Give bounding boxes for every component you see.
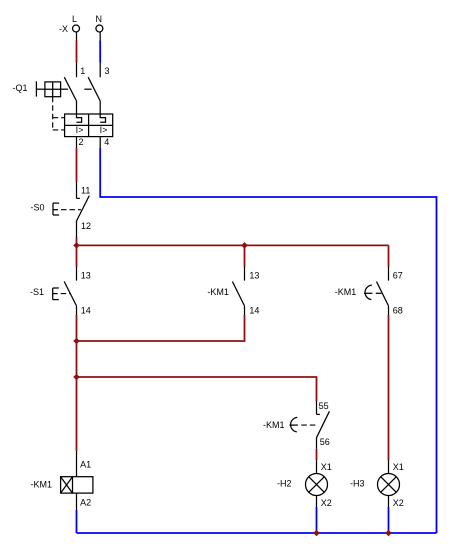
wire L to Q1 (red) [76,41,78,63]
svg-text:N: N [96,14,103,24]
svg-text:A2: A2 [80,497,91,507]
svg-text:68: 68 [393,306,403,316]
breaker Q1 pole1 lower pin [76,101,78,114]
junction dot node3 [73,374,80,381]
contact KM1 13-14 upper pin [244,267,246,281]
lamp H2 X1 pin [316,460,318,473]
svg-text:I>: I> [76,125,84,135]
wire H2 to bus (blue) [316,507,318,533]
breaker Q1 pole2 lower pin [99,101,101,114]
svg-text:55: 55 [319,401,329,411]
contact KM1 67-68 upper pin [388,267,390,281]
contact KM1 67-68 NO contact [377,282,389,306]
contact KM1 67-68 lower pin [388,306,390,315]
svg-text:L: L [72,14,77,24]
svg-text:X2: X2 [393,498,404,508]
wire KM1 68 to H3 (red) [388,315,390,460]
lamp H3 X2 pin [388,496,390,508]
svg-text:67: 67 [393,270,403,280]
pushbutton S1 actuator [53,288,71,300]
pushbutton S1 lower pin [76,306,78,315]
breaker Q1 release box [65,114,113,137]
svg-text:4: 4 [104,137,109,147]
wire node2 to node3 (red) [76,341,78,377]
breaker Q1 thermal release pole1 [77,114,82,122]
contact KM1 67-68 delay actuator [364,285,381,300]
terminal -X:N circle [96,25,103,32]
svg-text:-KM1: -KM1 [31,479,53,489]
pushbutton S1 NO contact [64,282,76,306]
svg-text:-S1: -S1 [30,287,44,297]
svg-text:-H2: -H2 [277,479,292,489]
wire node1 to S1 (red) [76,245,78,266]
svg-text:13: 13 [249,270,259,280]
breaker Q1 pole1 bottom pin [76,137,78,148]
lamp H2 X2 pin [316,496,318,508]
svg-text:2: 2 [79,137,84,147]
wire N to Q1 (blue) [99,41,101,63]
pushbutton S0 NC contact [77,196,90,221]
breaker Q1 mechanical linkage (dashed) [53,89,92,130]
junction dot node1 left [73,242,80,249]
svg-text:14: 14 [81,305,91,315]
svg-text:1: 1 [80,66,85,76]
wire KM1 14 to node2 (red) [77,315,245,341]
breaker Q1 pole1 upper pin [76,63,78,78]
svg-text:13: 13 [81,270,91,280]
pushbutton S1 upper pin [76,267,78,281]
bus N bottom (blue) [77,532,437,534]
coil KM1 A1 pin [76,451,78,477]
wire Q1 to N-rail (blue) [100,148,436,533]
wire node3 to KM1 55 (red) [316,400,318,402]
svg-text:12: 12 [81,221,91,231]
breaker Q1 pole2 contact [88,77,100,101]
wire coil A2 to bus (blue) [76,510,78,533]
wire N terminal pin [99,32,101,40]
svg-text:-X: -X [59,24,68,34]
svg-text:-KM1: -KM1 [207,287,229,297]
lamp H3 body [378,474,400,496]
svg-text:X2: X2 [321,498,332,508]
junction dot bus H3 [385,530,392,537]
contact KM1 55-56 NC foot [317,413,320,415]
pushbutton S0 NC foot [77,197,80,199]
svg-text:11: 11 [81,186,90,196]
terminal -X:L circle [73,25,80,32]
svg-text:56: 56 [320,437,330,447]
contact KM1 13-14 lower pin [244,306,246,315]
svg-text:X1: X1 [321,462,332,472]
coil KM1 body [61,477,93,493]
pushbutton S0 actuator [53,203,81,215]
junction dot bus H2 [313,530,320,537]
svg-text:-Q1: -Q1 [13,83,28,93]
wire node1 to KM1 67 (red) [388,245,390,266]
svg-text:X1: X1 [393,462,404,472]
wire Q1 to S0 (red) [76,148,78,182]
wire S1 to node2 (red) [76,315,78,341]
contact KM1 55-56 upper pin [316,401,318,414]
contact KM1 13-14 NO contact [232,282,244,306]
svg-text:3: 3 [105,66,110,76]
svg-text:-S0: -S0 [31,202,45,212]
svg-text:A1: A1 [80,460,91,470]
svg-text:-KM1: -KM1 [335,287,357,297]
junction dot node2 [73,338,80,345]
rail node1 horizontal (red) [77,244,389,246]
svg-text:-H3: -H3 [350,479,365,489]
contact KM1 55-56 NC contact [317,411,330,437]
pushbutton S0 upper pin [76,182,78,199]
lamp H3 X1 pin [388,460,390,473]
pushbutton S0 lower pin [76,221,78,238]
coil KM1 A2 pin [76,493,78,510]
breaker Q1 thermal release pole2 [100,114,105,122]
contact KM1 55-56 lower pin [316,437,318,448]
wire H3 to bus (blue) [388,507,390,533]
wire KM1 56 to H2 (red) [316,449,318,461]
wire L terminal pin [76,32,78,40]
breaker Q1 pole2 upper pin [99,63,101,78]
lamp H2 body [306,474,328,496]
junction dot node1 mid [241,242,248,249]
rail node3 horizontal (red) [77,377,317,401]
breaker Q1 pole2 bottom pin [99,137,101,148]
wire node1 to KM1 13 (red) [244,245,246,266]
svg-text:-KM1: -KM1 [263,420,285,430]
breaker Q1 manual operator [36,81,60,96]
svg-text:I>: I> [100,125,108,135]
contact KM1 55-56 delay actuator [290,417,318,432]
wire node3 to coil A1 (red) [76,377,78,451]
breaker Q1 pole1 contact [64,77,76,101]
wire S0 to node1 (red) [76,238,78,246]
svg-text:14: 14 [249,305,259,315]
